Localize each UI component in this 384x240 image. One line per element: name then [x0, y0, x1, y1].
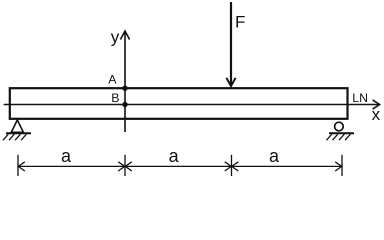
- svg-text:y: y: [111, 28, 120, 47]
- label y: [111, 28, 120, 47]
- neutral axis line LN / x-axis: [4, 100, 380, 109]
- svg-text:a: a: [169, 146, 180, 166]
- dimension arrowheads: [18, 162, 341, 171]
- svg-text:B: B: [111, 91, 119, 105]
- force F arrow: [226, 2, 235, 86]
- dimension label a (middle span): [169, 146, 180, 166]
- svg-text:LN: LN: [352, 91, 368, 105]
- label A: [108, 73, 117, 87]
- right roller support circle: [335, 122, 344, 131]
- dimension label a (right span): [269, 146, 280, 166]
- dimension line: [18, 165, 342, 167]
- node B dot: [122, 102, 127, 107]
- left pinned support triangle: [11, 120, 23, 132]
- svg-text:A: A: [108, 73, 117, 87]
- label x: [372, 105, 381, 124]
- right support hatching: [327, 134, 351, 140]
- dimension tick at support left: [17, 155, 19, 176]
- dimension label a (left span): [61, 146, 72, 166]
- label F: [235, 12, 245, 31]
- dimension tick below y-axis: [124, 155, 126, 176]
- svg-text:a: a: [269, 146, 280, 166]
- svg-text:x: x: [372, 105, 381, 124]
- y-axis: [120, 31, 129, 132]
- dimension tick at support right: [341, 155, 343, 176]
- left support hatching: [3, 134, 26, 140]
- label B: [111, 91, 119, 105]
- node A dot: [122, 86, 127, 91]
- dimension tick below force: [231, 155, 233, 176]
- right support ground line: [329, 132, 354, 134]
- label LN: [352, 91, 368, 105]
- left support ground line: [6, 132, 31, 134]
- svg-text:F: F: [235, 12, 245, 31]
- svg-text:a: a: [61, 146, 72, 166]
- beam rectangle: [10, 88, 348, 119]
